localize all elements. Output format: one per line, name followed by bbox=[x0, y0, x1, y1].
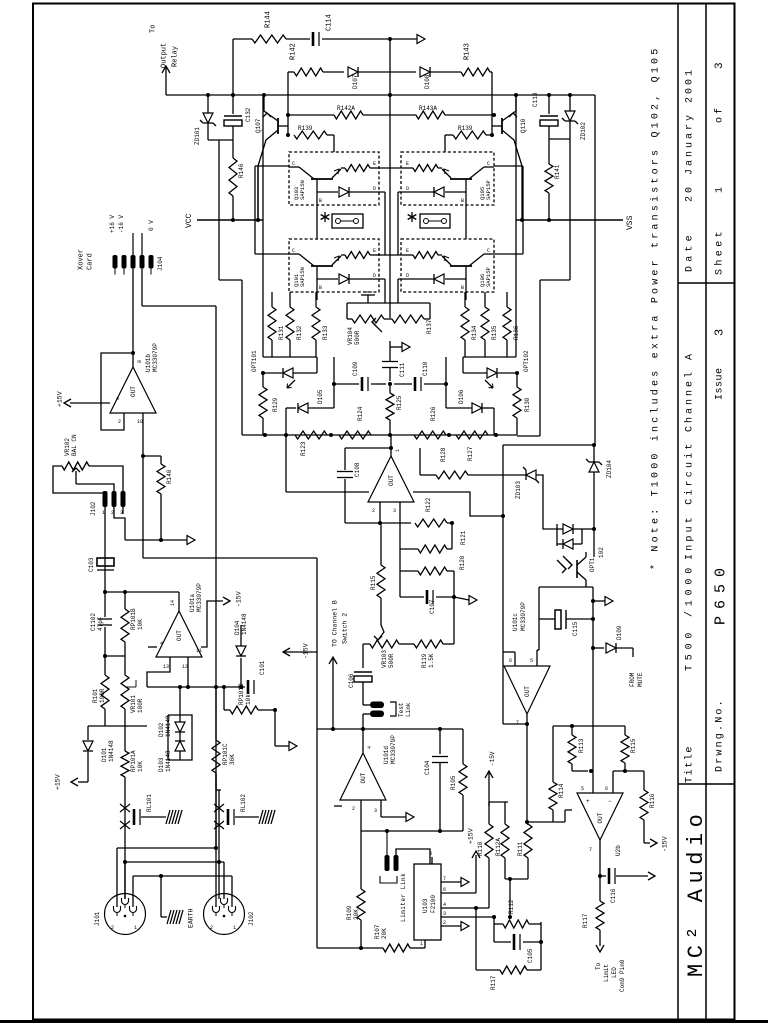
svg-text:4: 4 bbox=[116, 396, 119, 402]
svg-text:2: 2 bbox=[118, 419, 121, 425]
svg-text:C: C bbox=[292, 248, 295, 254]
svg-text:Limiter Link: Limiter Link bbox=[400, 873, 407, 922]
svg-text:ZD101: ZD101 bbox=[194, 127, 201, 145]
svg-text:R111: R111 bbox=[517, 841, 524, 856]
svg-text:R136: R136 bbox=[513, 325, 520, 340]
svg-text:Con9 Pin0: Con9 Pin0 bbox=[619, 959, 626, 992]
svg-text:Title: Title bbox=[684, 745, 696, 783]
svg-text:R112: R112 bbox=[508, 899, 515, 914]
svg-text:J101: J101 bbox=[94, 911, 101, 926]
svg-text:D107: D107 bbox=[352, 74, 359, 89]
svg-text:OUT: OUT bbox=[176, 630, 183, 641]
svg-text:Sheet: Sheet bbox=[714, 228, 726, 275]
svg-text:OPT1: OPT1 bbox=[589, 557, 596, 572]
svg-text:10K: 10K bbox=[137, 619, 144, 630]
svg-text:SAP15N: SAP15N bbox=[299, 180, 306, 200]
svg-text:ZD103: ZD103 bbox=[515, 481, 522, 499]
svg-text:C: C bbox=[292, 161, 295, 167]
svg-text:12: 12 bbox=[182, 664, 188, 670]
svg-text:Q107: Q107 bbox=[255, 118, 262, 133]
svg-text:Output: Output bbox=[161, 43, 169, 68]
svg-text:Channel A: Channel A bbox=[684, 351, 696, 432]
svg-text:4: 4 bbox=[443, 902, 446, 908]
svg-text:OUT: OUT bbox=[597, 812, 604, 823]
svg-text:of: of bbox=[714, 105, 726, 123]
svg-text:C107: C107 bbox=[429, 599, 436, 614]
svg-text:T500 /1000: T500 /1000 bbox=[684, 563, 696, 671]
svg-text:C115: C115 bbox=[572, 621, 579, 636]
svg-text:-16 V: -16 V bbox=[118, 215, 125, 233]
svg-text:R132: R132 bbox=[296, 325, 303, 340]
svg-text:R137: R137 bbox=[426, 319, 433, 334]
svg-text:To: To bbox=[150, 25, 158, 33]
svg-text:6: 6 bbox=[509, 658, 512, 664]
svg-text:-15V: -15V bbox=[302, 643, 309, 659]
svg-text:Card: Card bbox=[87, 253, 95, 270]
svg-text:1N4148: 1N4148 bbox=[108, 740, 115, 762]
svg-text:B: B bbox=[461, 198, 464, 204]
svg-text:R143: R143 bbox=[464, 43, 472, 60]
svg-text:U101c: U101c bbox=[512, 613, 519, 631]
svg-text:+15V: +15V bbox=[467, 828, 474, 844]
svg-text:J104: J104 bbox=[157, 256, 164, 271]
svg-text:2: 2 bbox=[111, 925, 114, 931]
svg-text:D105: D105 bbox=[317, 389, 324, 404]
svg-text:Q110: Q110 bbox=[520, 118, 527, 133]
svg-text:MC33079P: MC33079P bbox=[390, 735, 397, 764]
svg-text:MC² Audio: MC² Audio bbox=[684, 809, 709, 977]
svg-text:MUTE: MUTE bbox=[637, 672, 644, 687]
svg-text:BAL CN: BAL CN bbox=[71, 434, 78, 456]
svg-text:-15V: -15V bbox=[235, 591, 242, 607]
svg-text:E: E bbox=[373, 248, 376, 254]
svg-text:R133: R133 bbox=[322, 325, 329, 340]
svg-text:C103: C103 bbox=[88, 557, 95, 572]
svg-text:5: 5 bbox=[530, 658, 533, 664]
svg-text:C113: C113 bbox=[532, 92, 539, 107]
svg-text:R120: R120 bbox=[459, 555, 466, 570]
svg-text:36K: 36K bbox=[229, 754, 236, 765]
svg-text:VR104: VR104 bbox=[347, 327, 354, 345]
svg-text:D108: D108 bbox=[424, 74, 431, 89]
svg-text:R117: R117 bbox=[490, 975, 497, 990]
svg-text:R142A: R142A bbox=[337, 105, 355, 112]
svg-text:4: 4 bbox=[367, 746, 373, 749]
svg-text:U103: U103 bbox=[422, 898, 429, 913]
svg-text:6: 6 bbox=[605, 786, 608, 792]
svg-text:R107: R107 bbox=[374, 924, 381, 939]
svg-text:R144: R144 bbox=[265, 11, 273, 28]
svg-text:3: 3 bbox=[443, 911, 446, 917]
svg-text:R110: R110 bbox=[477, 841, 484, 856]
svg-text:+: + bbox=[586, 798, 590, 805]
svg-text:ZD102: ZD102 bbox=[580, 122, 587, 140]
svg-text:F2100: F2100 bbox=[430, 895, 437, 913]
svg-text:-15V: -15V bbox=[489, 751, 496, 766]
svg-text:Relay: Relay bbox=[172, 46, 180, 67]
svg-text:R128: R128 bbox=[440, 447, 447, 462]
svg-text:8: 8 bbox=[137, 360, 143, 363]
svg-text:7: 7 bbox=[516, 720, 519, 726]
svg-text:Limit: Limit bbox=[603, 964, 610, 982]
svg-text:C108: C108 bbox=[354, 462, 361, 477]
svg-text:U101d: U101d bbox=[383, 746, 390, 764]
svg-text:C101: C101 bbox=[259, 660, 266, 675]
svg-text:R130: R130 bbox=[524, 397, 531, 412]
svg-text:1N4148: 1N4148 bbox=[165, 715, 172, 737]
svg-text:Drwng.No.: Drwng.No. bbox=[715, 698, 726, 772]
svg-text:1: 1 bbox=[420, 941, 423, 947]
svg-text:3: 3 bbox=[393, 508, 396, 514]
svg-text:C109: C109 bbox=[352, 361, 359, 376]
svg-text:U101a: U101a bbox=[189, 594, 196, 612]
svg-text:RP101A: RP101A bbox=[130, 750, 137, 772]
svg-text:R129: R129 bbox=[272, 397, 279, 412]
svg-text:Link: Link bbox=[405, 702, 412, 717]
svg-text:MC33079P: MC33079P bbox=[152, 343, 159, 372]
svg-text:100R: 100R bbox=[99, 688, 106, 703]
svg-text:RL101: RL101 bbox=[146, 794, 153, 812]
svg-text:P650: P650 bbox=[712, 561, 729, 625]
svg-text:VR102: VR102 bbox=[64, 438, 71, 456]
svg-text:R127: R127 bbox=[467, 446, 474, 461]
svg-text:2: 2 bbox=[372, 508, 375, 514]
svg-text:D104: D104 bbox=[234, 620, 241, 635]
svg-text:D106: D106 bbox=[458, 389, 465, 404]
svg-text:Test: Test bbox=[398, 703, 405, 717]
svg-text:RL102: RL102 bbox=[240, 794, 247, 812]
svg-text:R143A: R143A bbox=[419, 105, 437, 112]
svg-text:D101: D101 bbox=[101, 747, 108, 762]
svg-text:RP101D: RP101D bbox=[238, 683, 245, 705]
svg-text:Xover: Xover bbox=[78, 249, 86, 270]
svg-text:R115: R115 bbox=[630, 738, 637, 753]
svg-text:6: 6 bbox=[443, 887, 446, 893]
svg-text:11: 11 bbox=[196, 648, 202, 654]
svg-text:500R: 500R bbox=[388, 653, 395, 668]
svg-text:R109: R109 bbox=[346, 905, 353, 920]
svg-text:U2b: U2b bbox=[615, 845, 622, 856]
svg-text:J102: J102 bbox=[90, 501, 97, 516]
svg-text:2: 2 bbox=[443, 920, 446, 926]
svg-text:Issue: Issue bbox=[715, 367, 726, 400]
svg-text:10k: 10k bbox=[245, 694, 252, 705]
svg-text:13: 13 bbox=[163, 664, 169, 670]
svg-text:R116: R116 bbox=[649, 793, 656, 808]
svg-text:FROM: FROM bbox=[629, 672, 636, 687]
svg-text:RP101B: RP101B bbox=[130, 608, 137, 630]
svg-text:Date: Date bbox=[685, 231, 696, 272]
svg-text:14: 14 bbox=[170, 600, 176, 606]
svg-text:TO Channel B: TO Channel B bbox=[331, 600, 338, 647]
svg-text:E: E bbox=[373, 161, 376, 167]
svg-text:+15V: +15V bbox=[54, 774, 61, 790]
svg-text:R125: R125 bbox=[396, 395, 403, 410]
svg-text:102: 102 bbox=[598, 547, 605, 558]
svg-text:D: D bbox=[373, 186, 376, 192]
svg-text:J102: J102 bbox=[248, 911, 255, 926]
svg-text:R134: R134 bbox=[471, 325, 478, 340]
svg-text:C132: C132 bbox=[245, 107, 252, 122]
svg-text:OUT: OUT bbox=[524, 686, 531, 697]
svg-text:1.5K: 1.5K bbox=[428, 653, 435, 668]
svg-text:* Note: T1000 includes extra P: * Note: T1000 includes extra Power trans… bbox=[650, 46, 662, 570]
svg-text:7: 7 bbox=[589, 847, 592, 853]
svg-text:LED: LED bbox=[611, 967, 618, 978]
svg-text:+15V: +15V bbox=[56, 391, 63, 407]
svg-text:OUT: OUT bbox=[360, 772, 367, 783]
svg-text:VR103: VR103 bbox=[381, 650, 388, 668]
svg-text:3: 3 bbox=[712, 329, 726, 336]
svg-text:R112A: R112A bbox=[495, 838, 502, 856]
svg-text:VCC: VCC bbox=[185, 213, 194, 228]
svg-text:VR101: VR101 bbox=[130, 695, 137, 713]
svg-text:To: To bbox=[595, 962, 602, 970]
svg-text:R140: R140 bbox=[166, 469, 173, 484]
svg-text:E: E bbox=[406, 248, 409, 254]
svg-text:R135: R135 bbox=[491, 325, 498, 340]
svg-text:1: 1 bbox=[715, 187, 726, 193]
svg-text:1N4148: 1N4148 bbox=[241, 613, 248, 635]
svg-text:R113: R113 bbox=[578, 738, 585, 753]
svg-text:−: − bbox=[608, 798, 612, 805]
svg-text:2: 2 bbox=[210, 925, 213, 931]
svg-text:R139: R139 bbox=[298, 125, 313, 132]
svg-text:C114: C114 bbox=[326, 14, 334, 31]
svg-text:OPT102: OPT102 bbox=[523, 350, 530, 372]
svg-text:D: D bbox=[406, 186, 409, 192]
svg-text:C116: C116 bbox=[610, 888, 617, 903]
svg-text:R105: R105 bbox=[450, 775, 457, 790]
svg-text:47pF: 47pF bbox=[97, 616, 104, 631]
svg-text:R124: R124 bbox=[357, 406, 364, 421]
svg-text:OUT: OUT bbox=[130, 386, 137, 397]
svg-text:R117: R117 bbox=[582, 913, 589, 928]
svg-text:C110: C110 bbox=[422, 361, 429, 376]
svg-text:B: B bbox=[319, 198, 322, 204]
svg-text:R126: R126 bbox=[430, 406, 437, 421]
svg-text:D109: D109 bbox=[616, 625, 623, 640]
svg-text:3: 3 bbox=[714, 62, 726, 69]
svg-text:D: D bbox=[373, 273, 376, 279]
svg-text:Input Circuit: Input Circuit bbox=[684, 440, 696, 560]
svg-text:SAP15N: SAP15N bbox=[299, 267, 306, 287]
svg-text:VSS: VSS bbox=[626, 215, 635, 230]
svg-text:R141: R141 bbox=[554, 164, 561, 179]
svg-text:10: 10 bbox=[137, 419, 143, 425]
svg-text:3: 3 bbox=[374, 808, 377, 814]
svg-text:8: 8 bbox=[429, 851, 432, 857]
svg-text:20 January 2001: 20 January 2001 bbox=[685, 67, 696, 202]
svg-text:R123: R123 bbox=[300, 441, 307, 456]
svg-text:Switch 2: Switch 2 bbox=[341, 613, 348, 644]
svg-text:0 V: 0 V bbox=[148, 220, 155, 231]
svg-text:R119: R119 bbox=[421, 653, 428, 668]
svg-text:-15V: -15V bbox=[661, 836, 668, 852]
svg-text:B: B bbox=[461, 285, 464, 291]
svg-text:E: E bbox=[406, 161, 409, 167]
svg-text:EARTH: EARTH bbox=[187, 908, 194, 928]
svg-text:OPT101: OPT101 bbox=[251, 350, 258, 372]
svg-text:1N4148: 1N4148 bbox=[165, 750, 172, 772]
svg-text:R115: R115 bbox=[370, 575, 377, 590]
svg-text:R139: R139 bbox=[458, 125, 473, 132]
svg-text:U101b: U101b bbox=[145, 354, 152, 372]
svg-text:C: C bbox=[487, 248, 490, 254]
svg-text:C: C bbox=[487, 161, 490, 167]
svg-text:SAP15P: SAP15P bbox=[485, 180, 492, 200]
svg-text:C105: C105 bbox=[527, 948, 534, 963]
svg-text:C1102: C1102 bbox=[90, 613, 97, 631]
svg-text:7: 7 bbox=[443, 876, 446, 882]
svg-text:1: 1 bbox=[134, 925, 137, 931]
svg-text:5: 5 bbox=[581, 786, 584, 792]
svg-text:20K: 20K bbox=[381, 928, 388, 939]
svg-text:D103: D103 bbox=[158, 757, 165, 772]
svg-text:1: 1 bbox=[233, 925, 236, 931]
svg-text:R131: R131 bbox=[278, 325, 285, 340]
svg-text:500R: 500R bbox=[354, 330, 361, 345]
svg-text:OUT: OUT bbox=[388, 475, 395, 486]
svg-text:RP101C: RP101C bbox=[222, 743, 229, 765]
svg-text:R121: R121 bbox=[460, 530, 467, 545]
svg-text:B: B bbox=[319, 285, 322, 291]
svg-text:D: D bbox=[406, 273, 409, 279]
svg-text:R146: R146 bbox=[238, 163, 245, 178]
svg-text:C106: C106 bbox=[348, 673, 355, 688]
svg-text:D102: D102 bbox=[158, 722, 165, 737]
svg-text:ZD104: ZD104 bbox=[606, 460, 613, 478]
svg-text:R122: R122 bbox=[425, 497, 432, 512]
svg-text:2: 2 bbox=[352, 806, 355, 812]
svg-text:C111: C111 bbox=[399, 362, 406, 377]
svg-text:R101: R101 bbox=[92, 688, 99, 703]
svg-text:20K: 20K bbox=[353, 909, 360, 920]
svg-text:+16 V: +16 V bbox=[109, 215, 116, 233]
svg-text:R142: R142 bbox=[290, 43, 298, 60]
svg-text:SAP15P: SAP15P bbox=[485, 267, 492, 287]
svg-text:4: 4 bbox=[160, 641, 163, 647]
svg-text:10K: 10K bbox=[137, 761, 144, 772]
svg-text:MC33079P: MC33079P bbox=[520, 602, 527, 631]
svg-text:1: 1 bbox=[395, 449, 401, 452]
svg-text:100R: 100R bbox=[137, 698, 144, 713]
svg-text:C104: C104 bbox=[424, 760, 431, 775]
svg-text:R114: R114 bbox=[558, 783, 565, 798]
svg-text:MC33079P: MC33079P bbox=[196, 583, 203, 612]
